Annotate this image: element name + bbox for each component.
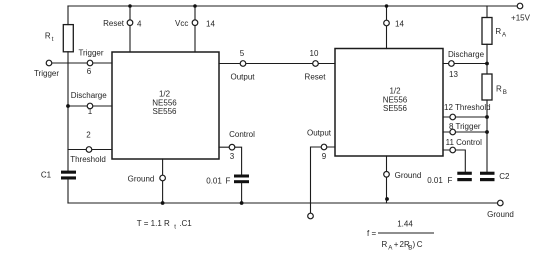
- wire bottom ground rail: [68, 202, 498, 204]
- wire ground pin timer2: [386, 156, 388, 203]
- pin 5 circle: [240, 61, 246, 67]
- svg-text:4: 4: [137, 20, 142, 29]
- node +15V terminal: [517, 3, 523, 9]
- svg-text:5: 5: [240, 49, 245, 58]
- wire pin 14 Vcc: [194, 6, 196, 52]
- wire cap1 to ground rail: [241, 183, 243, 203]
- svg-text:0.01: 0.01: [206, 177, 222, 186]
- svg-text:T = 1.1 R: T = 1.1 R: [137, 219, 170, 228]
- svg-text:Discharge: Discharge: [71, 91, 108, 100]
- svg-text:+: +: [394, 240, 399, 249]
- svg-text:+15V: +15V: [511, 14, 531, 23]
- svg-text:R: R: [496, 84, 502, 93]
- svg-text:Output: Output: [230, 73, 255, 82]
- capacitor C1: [61, 171, 76, 180]
- svg-text:B: B: [503, 89, 507, 96]
- svg-text:Reset: Reset: [103, 19, 125, 28]
- svg-text:C: C: [417, 240, 423, 249]
- pin 10 circle: [313, 61, 319, 67]
- wire top supply rail: [68, 5, 517, 7]
- pin 14 circle: [192, 20, 198, 26]
- wire pin 7 ground: [162, 159, 164, 203]
- svg-text:SE556: SE556: [383, 104, 408, 113]
- svg-text:Output: Output: [307, 129, 332, 138]
- svg-text:14: 14: [206, 20, 215, 29]
- capacitor 0.01uF timer2: [457, 172, 472, 182]
- capacitor 0.01uF timer1: [234, 175, 249, 184]
- svg-text:Ground: Ground: [128, 175, 155, 184]
- svg-text:14: 14: [395, 20, 404, 29]
- svg-text:1.44: 1.44: [397, 220, 413, 229]
- wire trigger input to pin 6: [52, 62, 112, 64]
- pin 1 circle: [87, 103, 93, 109]
- resistor RA: [482, 18, 492, 45]
- pin 13 circle: [449, 61, 455, 67]
- node junction rail threshold: [485, 115, 489, 119]
- svg-text:Vcc: Vcc: [175, 19, 188, 28]
- svg-text:t: t: [174, 224, 176, 231]
- svg-text:8 Trigger: 8 Trigger: [449, 122, 481, 131]
- svg-text:1/2: 1/2: [389, 87, 401, 96]
- svg-text:12 Threshold: 12 Threshold: [444, 103, 491, 112]
- pin 14 timer2 circle: [384, 20, 390, 26]
- svg-text:F: F: [226, 177, 231, 186]
- svg-text:): ): [413, 240, 416, 249]
- svg-text:f =: f =: [367, 229, 376, 238]
- svg-text:.C1: .C1: [179, 219, 192, 228]
- node junction ground rail cap1: [240, 201, 244, 205]
- node junction top rail pin4: [128, 4, 132, 8]
- wire pin 12 threshold: [443, 116, 487, 118]
- svg-text:C1: C1: [41, 171, 52, 180]
- svg-text:F: F: [448, 176, 453, 185]
- node trigger input terminal: [46, 60, 52, 66]
- svg-text:R: R: [45, 32, 51, 41]
- wire Rt top: [67, 6, 69, 25]
- wire pin 11 control: [443, 150, 465, 172]
- node junction ground rail timer2: [385, 197, 389, 201]
- svg-text:1: 1: [88, 107, 93, 116]
- node output terminal timer2: [308, 213, 314, 219]
- svg-text:10: 10: [310, 49, 319, 58]
- wire pin 8 trigger: [443, 131, 487, 133]
- svg-text:Ground: Ground: [487, 210, 514, 219]
- svg-text:NE556: NE556: [152, 98, 177, 107]
- wire pin 9 output timer2: [311, 147, 336, 213]
- svg-text:13: 13: [449, 70, 458, 79]
- wire C1 to ground rail: [67, 180, 69, 204]
- svg-text:Trigger: Trigger: [34, 69, 59, 78]
- node junction rail trigger: [485, 130, 489, 134]
- node junction top rail pin14: [193, 4, 197, 8]
- svg-text:C2: C2: [499, 172, 510, 181]
- svg-text:Trigger: Trigger: [78, 49, 103, 58]
- op-amp U1 timer box 1/2 NE556: [112, 52, 219, 159]
- pin 11 circle: [450, 147, 456, 153]
- svg-text:2: 2: [86, 131, 91, 140]
- svg-text:1/2: 1/2: [159, 89, 171, 98]
- svg-text:0.01: 0.01: [427, 176, 443, 185]
- svg-text:Ground: Ground: [395, 171, 422, 180]
- svg-text:Discharge: Discharge: [448, 50, 485, 59]
- pin 12 circle: [450, 114, 456, 120]
- wire pin 2 threshold: [68, 149, 112, 151]
- wire fraction bar: [378, 232, 434, 234]
- svg-text:SE556: SE556: [152, 107, 177, 116]
- svg-text:6: 6: [87, 67, 92, 76]
- svg-text:9: 9: [322, 152, 327, 161]
- svg-text:R: R: [495, 27, 501, 36]
- node junction Rt pin1: [66, 104, 70, 108]
- node junction rail discharge: [485, 62, 489, 66]
- wire pin 1 discharge: [68, 105, 112, 107]
- svg-text:A: A: [502, 31, 507, 38]
- svg-text:t: t: [52, 36, 54, 43]
- svg-text:3: 3: [230, 152, 235, 161]
- svg-text:Threshold: Threshold: [70, 155, 106, 164]
- svg-text:Control: Control: [229, 130, 255, 139]
- svg-text:Reset: Reset: [305, 73, 327, 82]
- capacitor C2: [480, 172, 495, 182]
- pin 4 circle: [127, 20, 133, 26]
- node junction top rail pin14 timer2: [385, 4, 389, 8]
- node ground terminal: [498, 200, 504, 206]
- resistor Rt: [63, 25, 73, 52]
- svg-text:A: A: [388, 245, 393, 252]
- pin 9 circle: [321, 144, 327, 150]
- node junction ground rail pin7: [161, 201, 165, 205]
- wire pin 3 control: [219, 147, 242, 174]
- pin 8 circle: [450, 129, 456, 135]
- wire Rt bottom to C1: [67, 52, 69, 171]
- ground pin circle timer2: [384, 172, 390, 178]
- wire right rail top: [486, 6, 488, 18]
- wire pin 4 reset: [129, 6, 131, 52]
- pin 7 circle: [160, 175, 166, 181]
- svg-text:R: R: [382, 240, 388, 249]
- pin 6 circle: [87, 60, 93, 66]
- wire RA to RB: [486, 44, 488, 74]
- resistor RB: [482, 74, 492, 100]
- wire RB to C2: [486, 100, 488, 172]
- pin 2 circle: [86, 147, 92, 153]
- svg-text:11 Control: 11 Control: [446, 138, 483, 147]
- wire pin 13 discharge: [443, 63, 487, 65]
- pin 3 circle: [229, 144, 235, 150]
- wire pin 5 output to pin 10 reset: [219, 63, 335, 65]
- op-amp U2 timer box 1/2 NE556: [335, 49, 443, 157]
- wire pin 14 timer2: [386, 6, 388, 49]
